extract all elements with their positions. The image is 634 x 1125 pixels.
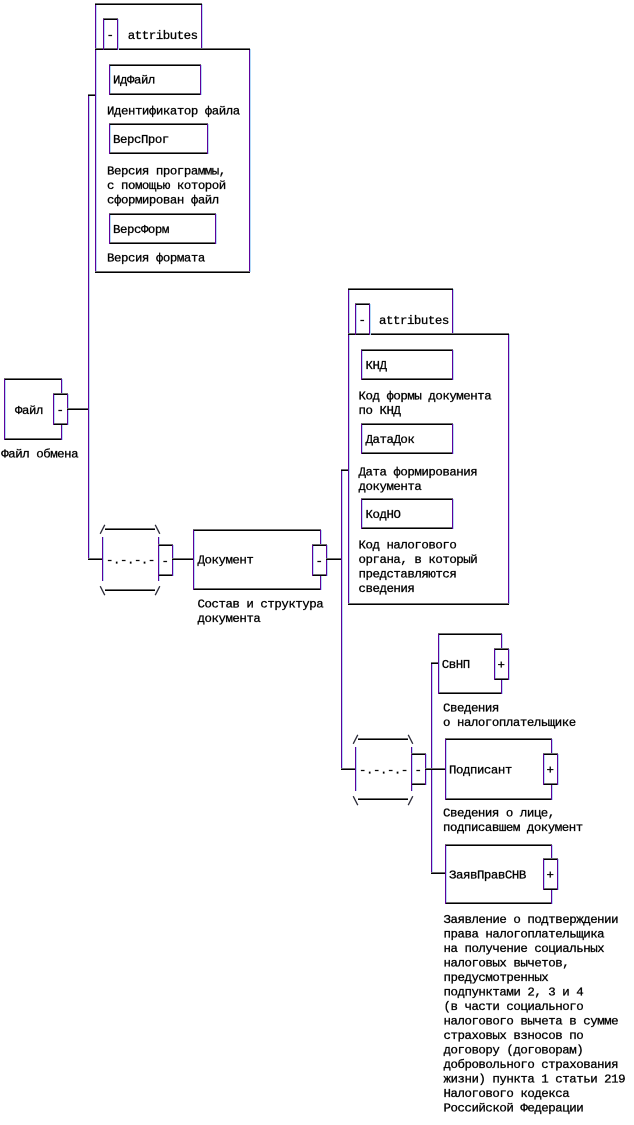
svg-text:органа, в который: органа, в который bbox=[359, 553, 478, 567]
label: Идентификатор файла bbox=[107, 105, 241, 119]
node Подписант (element box) bbox=[445, 738, 553, 800]
svg-text:подписавшем документ: подписавшем документ bbox=[443, 821, 583, 835]
expander - of node Файл bbox=[53, 393, 69, 425]
expander - of attributes (Файл) bbox=[103, 18, 119, 50]
svg-text:Код налогового: Код налогового bbox=[359, 539, 457, 553]
svg-text:-: - bbox=[57, 403, 64, 417]
svg-text:КНД: КНД bbox=[366, 359, 388, 373]
svg-text:+: + bbox=[498, 658, 505, 672]
label: attributes header (Файл) bbox=[128, 29, 198, 43]
label: Код налогового органа (4 lines) bbox=[359, 539, 478, 597]
attribute box КодНО bbox=[361, 498, 454, 529]
label: attributes header (Документ) bbox=[379, 314, 449, 328]
svg-text:ЗаявПравСНВ: ЗаявПравСНВ bbox=[449, 868, 526, 882]
attribute box КНД bbox=[361, 349, 454, 380]
wire: sequence left bar bbox=[102, 537, 104, 581]
svg-text:налоговых вычетов,: налоговых вычетов, bbox=[444, 957, 570, 971]
node Документ (element box) bbox=[193, 529, 322, 590]
svg-text:-.-.-.-: -.-.-.- bbox=[106, 554, 155, 568]
label: Версия формата bbox=[107, 252, 206, 266]
svg-text:Состав и структура: Состав и структура bbox=[198, 597, 325, 611]
node СвНП (element box) bbox=[438, 633, 503, 694]
label: Сведения о налогоплательщике bbox=[443, 702, 576, 731]
wire: trunk3 elbow to СвНП bbox=[431, 662, 439, 664]
svg-text:предусмотренных: предусмотренных bbox=[444, 971, 549, 985]
wire: trunk1 elbow to attributes container bbox=[88, 94, 96, 96]
expander - of attributes (Документ) bbox=[355, 303, 371, 335]
svg-text:ИдФайл: ИдФайл bbox=[113, 74, 155, 88]
wire: trunk2 vertical bbox=[341, 470, 343, 770]
svg-text:жизни) пункта 1 статьи 219: жизни) пункта 1 статьи 219 bbox=[444, 1073, 626, 1087]
wire: sequence top edge bbox=[358, 738, 408, 740]
label: Версия программы (3 lines) bbox=[107, 164, 226, 207]
svg-text:СвНП: СвНП bbox=[442, 658, 470, 672]
label: Заявление о подтверждении права ... (14 lines) bbox=[444, 913, 626, 1115]
attribute box ВерсФорм bbox=[109, 213, 217, 244]
svg-text:о налогоплательщике: о налогоплательщике bbox=[443, 716, 576, 730]
expander - of sequence1 bbox=[158, 544, 174, 576]
svg-text:Заявление о подтверждении: Заявление о подтверждении bbox=[444, 913, 619, 927]
svg-text:-: - bbox=[415, 763, 422, 777]
svg-text:attributes: attributes bbox=[128, 29, 198, 43]
svg-text:сведения: сведения bbox=[359, 582, 415, 596]
svg-text:представляются: представляются bbox=[359, 568, 457, 582]
attribute box ДатаДок bbox=[361, 423, 454, 454]
svg-text:Файл обмена: Файл обмена bbox=[1, 448, 79, 462]
svg-text:ДатаДок: ДатаДок bbox=[366, 433, 415, 447]
expander - of sequence2 bbox=[411, 753, 427, 785]
wire: trunk2 elbow to attributes container 2 bbox=[341, 469, 349, 471]
wire: sequence top edge bbox=[105, 528, 155, 530]
wire: sequence right bar bbox=[411, 747, 413, 791]
svg-text:с помощью которой: с помощью которой bbox=[107, 179, 226, 193]
wire: sequence2 to Подписант and trunk3 bbox=[425, 768, 445, 770]
svg-text:-.-.-.-: -.-.-.- bbox=[359, 764, 408, 778]
svg-text:-: - bbox=[162, 554, 169, 568]
attribute box ВерсПрог bbox=[109, 123, 209, 154]
svg-text:(в части социального: (в части социального bbox=[444, 1000, 584, 1014]
expander - of node Документ bbox=[312, 544, 328, 576]
wire: trunk1 vertical bbox=[88, 95, 90, 560]
sequence corner slashes bbox=[353, 735, 413, 805]
svg-text:-: - bbox=[107, 28, 114, 42]
container: attributes of Документ (outline) bbox=[348, 288, 510, 605]
svg-text:подпунктами 2, 3 и 4: подпунктами 2, 3 и 4 bbox=[444, 986, 584, 1000]
node Файл (root element box) bbox=[4, 378, 63, 440]
svg-text:налогового вычета в сумме: налогового вычета в сумме bbox=[444, 1015, 619, 1029]
svg-text:+: + bbox=[547, 868, 554, 882]
svg-text:Документ: Документ bbox=[198, 554, 254, 568]
svg-text:права налогоплательщика: права налогоплательщика bbox=[444, 928, 606, 942]
svg-text:Российской Федерации: Российской Федерации bbox=[444, 1101, 584, 1115]
svg-text:-: - bbox=[316, 554, 323, 568]
svg-text:Сведения: Сведения bbox=[443, 702, 499, 716]
svg-text:документа: документа bbox=[198, 612, 262, 626]
label: Сведения о лице, подписавшем документ bbox=[443, 807, 583, 836]
container: attributes of Файл (outline) bbox=[95, 3, 251, 273]
svg-text:на получение социальных: на получение социальных bbox=[444, 942, 605, 956]
svg-text:страховых взносов по: страховых взносов по bbox=[444, 1029, 584, 1043]
svg-text:добровольного страхования: добровольного страхования bbox=[444, 1058, 619, 1072]
expander + of node Подписант bbox=[543, 753, 559, 785]
wire: sequence1 to Документ bbox=[172, 558, 193, 560]
svg-text:+: + bbox=[547, 763, 554, 777]
wire: sequence left bar bbox=[355, 747, 357, 791]
svg-text:Код формы документа: Код формы документа bbox=[359, 389, 493, 403]
wire: Файл to trunk1 bbox=[67, 408, 89, 410]
wire: sequence right bar bbox=[158, 537, 160, 581]
svg-text:attributes: attributes bbox=[379, 314, 449, 328]
svg-text:Подписант: Подписант bbox=[449, 763, 512, 777]
wire: trunk2 elbow into sequence2 bbox=[341, 768, 355, 770]
svg-text:ВерсПрог: ВерсПрог bbox=[113, 133, 169, 147]
svg-text:договору (договорам): договору (договорам) bbox=[444, 1044, 584, 1058]
wire: trunk3 elbow to ЗаявПравСНВ bbox=[431, 872, 446, 874]
svg-text:Файл: Файл bbox=[15, 404, 43, 418]
wire: trunk1 elbow into sequence1 bbox=[88, 558, 102, 560]
svg-text:Версия формата: Версия формата bbox=[107, 252, 206, 266]
attribute box ИдФайл bbox=[109, 64, 202, 95]
sequence corner slashes bbox=[100, 525, 160, 595]
wire: trunk3 vertical bbox=[431, 663, 433, 874]
label: Код формы документа по КНД bbox=[359, 389, 493, 418]
expander + of node СвНП bbox=[494, 648, 510, 680]
svg-text:Идентификатор файла: Идентификатор файла bbox=[107, 105, 241, 119]
wire: Документ to trunk2 bbox=[326, 558, 342, 560]
svg-text:ВерсФорм: ВерсФорм bbox=[113, 223, 169, 237]
wire: sequence bottom edge bbox=[105, 589, 155, 591]
svg-text:-: - bbox=[359, 313, 366, 327]
label: Файл обмена bbox=[1, 448, 79, 462]
svg-text:по КНД: по КНД bbox=[359, 404, 402, 418]
svg-text:Дата формирования: Дата формирования bbox=[359, 465, 478, 479]
sequence dash-dot pattern bbox=[359, 764, 408, 778]
node ЗаявПравСНВ (element box) bbox=[445, 844, 553, 904]
expander + of node ЗаявПравСНВ bbox=[543, 858, 559, 890]
label: Состав и структура документа bbox=[198, 597, 325, 626]
svg-text:Версия программы,: Версия программы, bbox=[107, 164, 226, 178]
svg-text:Налогового кодекса: Налогового кодекса bbox=[444, 1087, 571, 1101]
label: Дата формирования документа bbox=[359, 465, 478, 494]
wire: sequence bottom edge bbox=[358, 798, 408, 800]
svg-text:сформирован файл: сформирован файл bbox=[107, 193, 219, 207]
svg-text:документа: документа bbox=[359, 480, 423, 494]
svg-text:КодНО: КодНО bbox=[366, 508, 401, 522]
svg-text:Сведения о лице,: Сведения о лице, bbox=[443, 807, 555, 821]
sequence dash-dot pattern bbox=[106, 554, 155, 568]
